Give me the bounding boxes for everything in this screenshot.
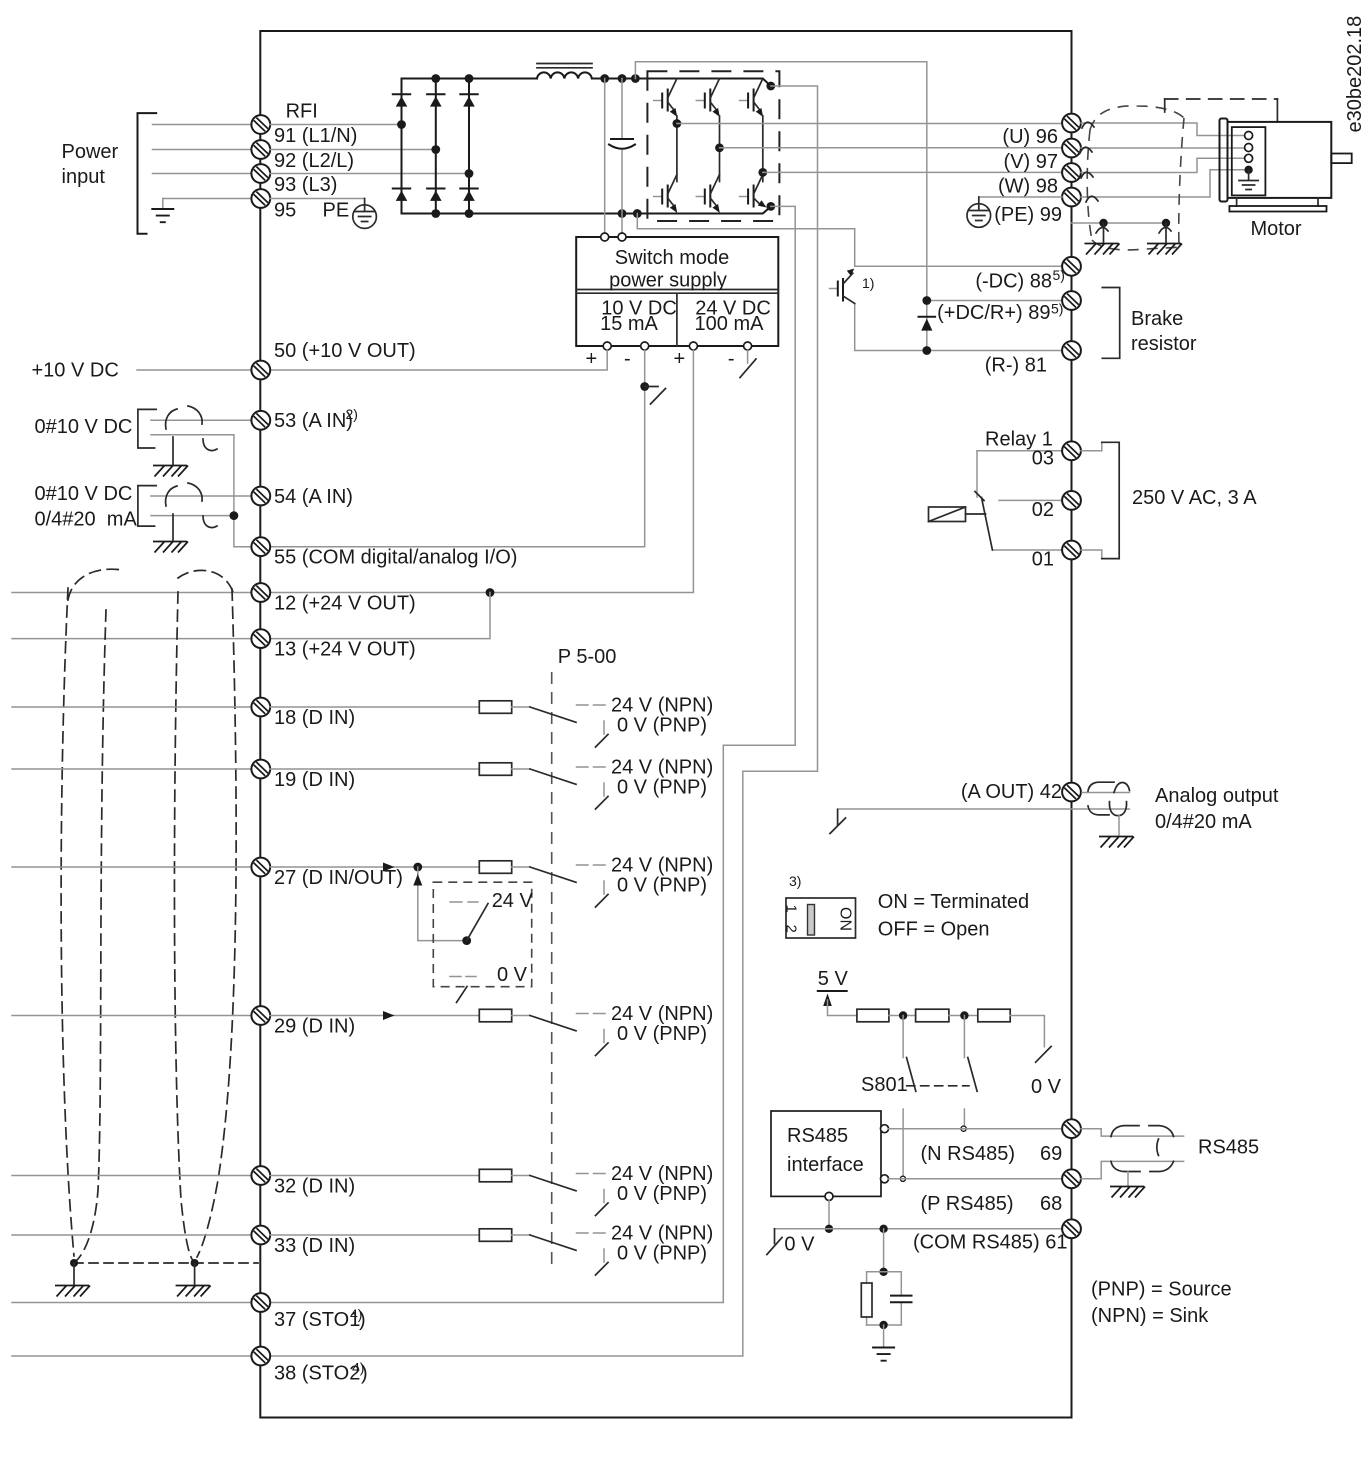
svg-text:24 V (NPN): 24 V (NPN): [611, 695, 713, 717]
rectifier leg 3: [468, 79, 470, 214]
RS485 chassis ground: [1110, 1187, 1145, 1198]
shielded control cable inner right: [174, 592, 192, 1260]
switch blade 32: [530, 1176, 576, 1191]
RS485 pin N: [881, 1125, 889, 1133]
RS485 cable wire 69: [1081, 1129, 1184, 1136]
inverter module dashed box: [647, 71, 779, 221]
svg-text:38 (STO2: 38 (STO2: [274, 1363, 360, 1385]
PNP contact 27: [603, 881, 605, 894]
svg-text:1: 1: [783, 905, 800, 913]
resistor 27: [479, 861, 511, 874]
junction dot RC node: [879, 1268, 887, 1276]
wire 92 to rectifier: [270, 149, 436, 151]
relay coil: [929, 507, 986, 522]
svg-text:Brake: Brake: [1131, 308, 1183, 330]
svg-text:24 V (NPN): 24 V (NPN): [611, 757, 713, 779]
svg-text:RFI: RFI: [286, 101, 318, 123]
DC+ top bus: [402, 79, 771, 87]
terminal 93: [251, 164, 270, 183]
arrow on wire 27: [383, 863, 395, 872]
drive enclosure outer border: [260, 31, 1071, 1418]
wire L2 input: [153, 149, 252, 151]
svg-text:5 V: 5 V: [818, 968, 849, 990]
svg-text:0 V (PNP): 0 V (PNP): [617, 1183, 707, 1205]
wire 27 to resistor: [270, 866, 479, 868]
wire P RS485 row: [889, 1178, 1063, 1180]
svg-text:24 V (NPN): 24 V (NPN): [611, 1163, 713, 1185]
svg-text:(+DC/R+) 89: (+DC/R+) 89: [937, 302, 1050, 324]
wire R1-R2: [889, 1015, 916, 1017]
terminal 99: [1062, 188, 1081, 207]
wire 91 to rectifier: [270, 124, 402, 126]
junction dot 81 diode: [922, 346, 931, 355]
rectifier leg 2: [435, 79, 437, 214]
svg-text:(PNP) = Source: (PNP) = Source: [1091, 1279, 1232, 1301]
RC bottom link: [867, 1324, 902, 1326]
junction dot COM pin: [825, 1225, 833, 1233]
27 selector wiper dot: [462, 936, 471, 945]
RC earth stem: [883, 1325, 885, 1347]
wire bus to SMPS plus: [604, 79, 606, 234]
A OUT cable stub: [1082, 792, 1129, 794]
svg-text:P 5-00: P 5-00: [558, 646, 617, 668]
27 selector dashed box: [433, 882, 531, 987]
shield bond dot left: [70, 1259, 78, 1267]
wire 54 pair upper: [151, 495, 251, 497]
switch mode power supply box: [576, 237, 778, 346]
motor flange: [1220, 119, 1228, 202]
junction dot 54 lower: [230, 511, 239, 520]
junction dot 91-leg1: [397, 120, 406, 129]
relay bracket wires: [1081, 442, 1102, 558]
ground earth power input: [162, 199, 164, 209]
junction dot R2R3: [960, 1011, 968, 1019]
svg-text:(W) 98: (W) 98: [998, 176, 1058, 198]
svg-text:37 (STO1: 37 (STO1: [274, 1309, 360, 1331]
up arrow on 27 drop: [413, 874, 422, 886]
wire 53 pair upper: [151, 419, 251, 421]
svg-text:24 V (NPN): 24 V (NPN): [611, 1003, 713, 1025]
wire 89 row: [927, 300, 1062, 302]
power input bracket: [138, 113, 157, 234]
svg-text:): ): [359, 1309, 366, 1331]
S801 blade 1: [907, 1058, 916, 1092]
wire resistor 18 to switch: [512, 706, 530, 708]
wire 37 left extension: [12, 1302, 251, 1304]
svg-text:0 V (PNP): 0 V (PNP): [617, 777, 707, 799]
terminal 42: [1062, 783, 1081, 802]
P 5-00 dashed selector line: [551, 672, 553, 1268]
0V row start hook: [774, 1229, 776, 1244]
wire R3 to 0V drop: [1010, 1016, 1044, 1047]
digital input row 18: [12, 706, 251, 708]
motor shaft: [1331, 154, 1351, 164]
svg-text:19 (D IN): 19 (D IN): [274, 769, 355, 791]
analog input 54 bracket: [138, 486, 156, 526]
switch blade 29: [530, 1016, 576, 1031]
inductor coil: [537, 72, 592, 78]
svg-text:24 V: 24 V: [492, 890, 534, 912]
PNP contact 18: [603, 721, 605, 734]
terminal 55: [251, 537, 270, 556]
junction dot RC top: [879, 1225, 887, 1233]
S801 contact circle on N: [961, 1126, 966, 1131]
resistor 19: [479, 763, 511, 776]
wire 10V+ to terminal 50: [270, 350, 607, 370]
svg-text:69: 69: [1040, 1143, 1062, 1165]
shield bond dot right: [191, 1259, 199, 1267]
27 selector 24V contact: [450, 901, 478, 903]
NPN contact 18: [577, 704, 606, 706]
wire 93 to rectifier: [270, 173, 469, 175]
PE circled earth symbol right: [967, 197, 991, 227]
0V open slash top: [1036, 1047, 1052, 1063]
junction dot R1R2: [899, 1011, 907, 1019]
svg-text:0 V: 0 V: [497, 964, 528, 986]
motor base slab: [1229, 206, 1326, 212]
wire phase U to terminal 96: [677, 123, 1062, 125]
svg-text:OFF = Open: OFF = Open: [878, 919, 990, 941]
svg-text:-: -: [728, 348, 735, 370]
5V stem: [828, 1000, 857, 1016]
PNP contact 29: [603, 1030, 605, 1043]
junction dot 12/13: [486, 588, 495, 597]
RC top link: [867, 1271, 902, 1273]
wire L3 input: [153, 173, 252, 175]
RS485 pin P: [881, 1175, 889, 1183]
RS485 shield drain: [1127, 1172, 1129, 1186]
NPN contact 32: [577, 1173, 606, 1175]
wire +10V DC external: [137, 369, 251, 371]
pull resistor R1: [857, 1009, 889, 1022]
svg-text:Motor: Motor: [1250, 218, 1301, 240]
svg-text:Analog output: Analog output: [1155, 785, 1279, 807]
wire phase V to terminal 97: [720, 147, 1063, 149]
wire resistor 27 to switch: [512, 866, 530, 868]
relay wire 02: [999, 499, 1062, 501]
A OUT shield rims: [1088, 782, 1130, 815]
SMPS input pins: [601, 233, 609, 241]
wire resistor 32 to switch: [512, 1175, 530, 1177]
rectifier diode D6 bottom: [460, 189, 477, 201]
wire 12 left extension: [12, 592, 251, 594]
shield drain 54: [172, 514, 174, 540]
relay NC branch: [976, 451, 978, 497]
RS485 cable wire 68: [1081, 1161, 1184, 1178]
resistor 32: [479, 1169, 511, 1182]
node inverter bottom right: [766, 202, 775, 211]
phase U column link: [676, 116, 678, 182]
DIP slider: [808, 905, 815, 936]
svg-text:ON: ON: [837, 907, 854, 931]
svg-text:0 V (PNP): 0 V (PNP): [617, 1243, 707, 1265]
RC earth ground: [872, 1348, 895, 1361]
terminal 61: [1062, 1219, 1081, 1238]
wire 32 to resistor: [270, 1175, 479, 1177]
svg-text:e30be202.18: e30be202.18: [1344, 16, 1366, 133]
svg-text:ON = Terminated: ON = Terminated: [878, 891, 1029, 913]
shielded control cable inner left: [77, 610, 106, 1260]
svg-text:100 mA: 100 mA: [695, 313, 765, 335]
brake chopper IGBT 1): [830, 269, 855, 304]
PNP contact 32: [603, 1190, 605, 1203]
svg-text:250 V AC, 3 A: 250 V AC, 3 A: [1132, 487, 1257, 509]
RS485 pin COM: [825, 1192, 833, 1200]
wire 10V- common: [270, 350, 645, 547]
wire COM pin drop: [828, 1200, 830, 1228]
switch blade 19: [530, 769, 576, 784]
NPN contact 19: [577, 766, 606, 768]
svg-text:0 V (PNP): 0 V (PNP): [617, 875, 707, 897]
IGBT Q6 bottom W: [740, 175, 767, 208]
brake resistor bracket: [1102, 288, 1119, 359]
wire 29 to resistor: [270, 1015, 479, 1017]
frame ground stub 2: [1165, 223, 1167, 242]
svg-text:Power: Power: [62, 141, 119, 163]
wire DC+ tap to terminal 89: [635, 62, 926, 301]
svg-text:(N RS485): (N RS485): [921, 1143, 1015, 1165]
svg-text:0 V: 0 V: [784, 1234, 815, 1256]
IGBT Q5 bottom V: [696, 175, 720, 213]
NPN contact 29: [577, 1013, 606, 1015]
IGBT Q3 top W: [740, 79, 764, 117]
digital input row 33: [12, 1234, 251, 1236]
svg-text:95: 95: [274, 200, 296, 222]
phase W column link: [762, 116, 764, 182]
svg-text:53 (A IN): 53 (A IN): [274, 410, 353, 432]
chassis ground 53: [153, 466, 188, 477]
shielded control cable outer left: [61, 588, 74, 1256]
wire PE input: [163, 198, 251, 200]
svg-text:(R-) 81: (R-) 81: [985, 355, 1047, 377]
resistor 18: [479, 701, 511, 714]
S801 contact circle on P: [900, 1176, 905, 1181]
terminal 95: [251, 189, 270, 208]
svg-text:+: +: [585, 348, 597, 370]
motor frame ground bus: [1072, 222, 1167, 224]
relay NC contact tick: [975, 492, 984, 501]
frame ground dot 1: [1099, 219, 1107, 227]
terminal 98: [1062, 163, 1081, 182]
shield to motor frame dashed bond: [1164, 99, 1166, 112]
svg-text:(NPN) = Sink: (NPN) = Sink: [1091, 1305, 1209, 1327]
shield drain 53: [172, 437, 174, 464]
wire 53 pair lower to 55: [151, 435, 251, 547]
resistor 33: [479, 1229, 511, 1242]
svg-text:18 (D IN): 18 (D IN): [274, 707, 355, 729]
terminal 89: [1062, 291, 1081, 310]
resistor 29: [479, 1009, 511, 1022]
motor cable wire W: [1081, 158, 1245, 172]
PNP contact 19: [603, 783, 605, 796]
motor internal earth: [1239, 170, 1258, 190]
svg-text:RS485: RS485: [787, 1125, 848, 1147]
motor cable wire U: [1081, 123, 1245, 136]
svg-text:power supply: power supply: [609, 270, 727, 292]
shield bond ground left: [73, 1263, 75, 1284]
svg-text:91 (L1/N): 91 (L1/N): [274, 125, 357, 147]
motor cable wire V: [1081, 147, 1245, 149]
svg-text:93 (L3): 93 (L3): [274, 174, 337, 196]
wire phase W to terminal 98: [763, 171, 1062, 173]
rectifier leg 1: [401, 79, 403, 214]
chassis ground 54: [153, 542, 188, 553]
relay wire 03 left: [977, 450, 1062, 452]
motor terminal box: [1232, 127, 1266, 195]
wire N RS485 row: [889, 1128, 1063, 1130]
terminal 37: [251, 1293, 270, 1312]
27 selector 0V contact: [450, 976, 476, 978]
relay blade: [982, 498, 993, 551]
wire 19 to resistor: [270, 768, 479, 770]
svg-text:(A OUT) 42: (A OUT) 42: [961, 781, 1062, 803]
cable top rim arc left: [68, 569, 122, 600]
svg-text:0#10 V DC: 0#10 V DC: [35, 483, 133, 505]
A OUT shield drain: [1118, 816, 1120, 835]
svg-text:02: 02: [1032, 499, 1054, 521]
terminal 03: [1062, 441, 1081, 460]
frame ground stub 1: [1103, 223, 1105, 242]
node inverter top right: [766, 82, 775, 91]
digital input row 19: [12, 768, 251, 770]
analog input 53 bracket: [138, 409, 156, 448]
wire 24V+ to terminal 12: [270, 350, 693, 593]
junction dots top bus: [431, 74, 440, 83]
svg-text:+10 V DC: +10 V DC: [32, 360, 119, 382]
svg-text:13 (+24 V OUT): 13 (+24 V OUT): [274, 639, 416, 661]
RS485 interface box: [771, 1111, 881, 1196]
svg-text:): ): [361, 1363, 368, 1385]
motor body: [1228, 122, 1332, 198]
svg-text:54 (A IN): 54 (A IN): [274, 486, 353, 508]
wire DC- tap to terminal 88: [637, 214, 1062, 267]
svg-text:2): 2): [346, 406, 358, 422]
24V- stub with open symbol: [747, 350, 749, 363]
svg-text:0 V (PNP): 0 V (PNP): [617, 715, 707, 737]
svg-text:68: 68: [1040, 1193, 1062, 1215]
relay rating bracket: [1102, 442, 1119, 558]
node W: [758, 168, 767, 177]
SMPS output pins: [603, 342, 611, 350]
RC network stem: [883, 1229, 885, 1272]
wire L1 input: [153, 124, 252, 126]
terminal 91: [251, 115, 270, 134]
pull resistor R2: [916, 1009, 949, 1022]
SMPS divider lines: [576, 290, 778, 347]
svg-text:RS485: RS485: [1198, 1137, 1259, 1159]
27 selector open slash: [457, 987, 468, 1003]
S801 switch 1 stem: [902, 1016, 904, 1058]
S801 contact 2 to N line: [963, 1109, 965, 1129]
terminal 12: [251, 583, 270, 602]
wire 95 to PE symbol: [270, 198, 365, 200]
svg-text:5): 5): [1051, 301, 1063, 317]
shielded control cable outer right: [197, 589, 236, 1257]
digital input row 27: [12, 866, 251, 868]
RS485 shield rims: [1111, 1126, 1174, 1172]
junction dot 10V-: [640, 382, 649, 391]
switch blade 27: [530, 867, 576, 882]
S801 gang dashed link: [907, 1085, 969, 1087]
PNP contact 33: [603, 1249, 605, 1262]
junction dot 93-leg3: [465, 169, 474, 178]
terminal 53: [251, 411, 270, 430]
junction dot 89 diode: [922, 296, 931, 305]
svg-text:5): 5): [1053, 267, 1065, 283]
wire 33 to resistor: [270, 1234, 479, 1236]
svg-text:PE: PE: [323, 200, 350, 222]
PE circled earth symbol left: [353, 199, 377, 229]
svg-text:Switch mode: Switch mode: [615, 247, 730, 269]
inductor core lines: [537, 64, 592, 68]
phase V column link: [719, 116, 721, 182]
svg-text:0 V (PNP): 0 V (PNP): [617, 1023, 707, 1045]
terminal 81: [1062, 341, 1081, 360]
svg-text:0#10 V DC: 0#10 V DC: [35, 416, 133, 438]
svg-text:24 V (NPN): 24 V (NPN): [611, 855, 713, 877]
svg-text:29 (D IN): 29 (D IN): [274, 1016, 355, 1038]
svg-text:2: 2: [783, 925, 800, 933]
shield crossing arcs: [1080, 122, 1171, 233]
node U: [673, 119, 682, 128]
wire resistor 29 to switch: [512, 1015, 530, 1017]
switch blade 18: [530, 707, 576, 722]
terminal 88: [1062, 257, 1081, 276]
shield arcs 54: [166, 483, 217, 528]
motor cable wire PE: [1081, 170, 1248, 197]
NPN contact 33: [577, 1232, 606, 1234]
terminal 50: [251, 361, 270, 380]
5V arrow: [823, 994, 832, 1007]
5V rail bar: [818, 990, 847, 992]
terminal 68: [1062, 1169, 1081, 1188]
svg-text:0/4#20 mA: 0/4#20 mA: [1155, 811, 1252, 833]
0V row slash: [767, 1238, 782, 1255]
shield bond ground right: [194, 1263, 196, 1284]
junction dot 92-leg2: [431, 145, 440, 154]
svg-text:50 (+10 V OUT): 50 (+10 V OUT): [274, 340, 416, 362]
svg-text:15 mA: 15 mA: [600, 313, 658, 335]
svg-text:33 (D IN): 33 (D IN): [274, 1235, 355, 1257]
svg-text:S801: S801: [861, 1074, 908, 1096]
svg-text:24 V (NPN): 24 V (NPN): [611, 1223, 713, 1245]
wire 54 pair lower: [151, 515, 234, 517]
wire 18 to resistor: [270, 706, 479, 708]
svg-text:interface: interface: [787, 1154, 864, 1176]
cable top rim arc right: [178, 570, 233, 592]
wire resistor 33 to switch: [512, 1234, 530, 1236]
IGBT Q1 top U: [654, 79, 678, 117]
junction dot 27: [413, 863, 422, 872]
wire bus through capacitor to SMPS: [621, 79, 623, 234]
RC capacitor: [900, 1272, 902, 1325]
A OUT open end hook: [837, 810, 839, 825]
wire 27 output select drop: [418, 867, 467, 941]
wire R2-R3: [949, 1015, 978, 1017]
terminal 96: [1062, 114, 1081, 133]
svg-text:+: +: [674, 348, 686, 370]
rectifier diode D4 bottom: [393, 189, 410, 201]
wire STO2 elbow from inverter top: [270, 86, 818, 1356]
terminal 54: [251, 487, 270, 506]
digital input row 32: [12, 1175, 251, 1177]
terminal 92: [251, 140, 270, 159]
IGBT Q2 top V: [696, 79, 720, 117]
NPN contact 27: [577, 864, 606, 866]
DC- bottom bus: [402, 206, 771, 213]
rectifier diode D2 top: [427, 94, 444, 106]
S801 blade 2: [968, 1058, 977, 1092]
